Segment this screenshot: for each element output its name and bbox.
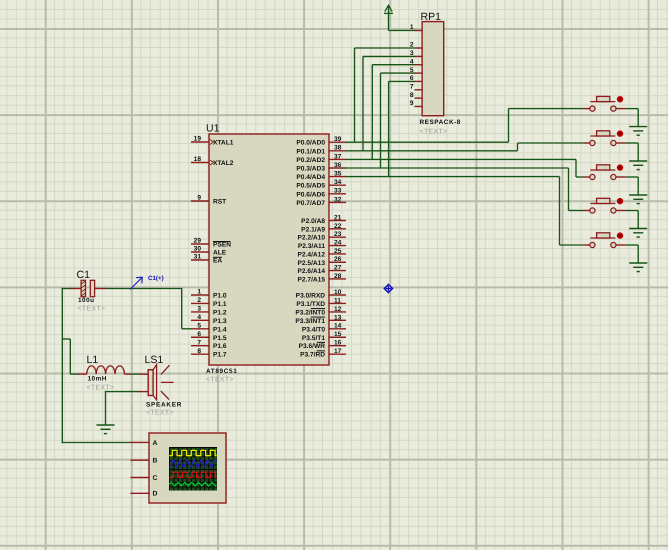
- U1 pin number 16: [334, 340, 342, 347]
- U1 pin 25 P2.4/A12 stub: [328, 253, 346, 255]
- U1 pin number 32: [334, 196, 342, 203]
- label RP1: [421, 11, 442, 23]
- U1 pin name P2.6/A14: [298, 268, 326, 275]
- svg-text:RESPACK-8: RESPACK-8: [420, 119, 461, 126]
- U1 pin 38 P0.1/AD1 stub: [328, 150, 346, 152]
- U1 pin name XTAL2: [213, 160, 234, 167]
- U1 pin name P0.5/AD5: [296, 183, 325, 190]
- RP1 pin number 7: [410, 84, 414, 91]
- wire power arrow to RP1 pin 1: [389, 6, 416, 31]
- RP1 pin number 2: [410, 42, 414, 49]
- wire C1 right to U1 pin 5 (P1.4): [105, 289, 192, 329]
- push button 3: [584, 165, 625, 180]
- push button 2 actuator marker: [617, 130, 623, 136]
- wire RP1 pin 3 to U1 P0.1: [363, 56, 415, 150]
- svg-text:33: 33: [334, 188, 342, 195]
- U1 pin name PSEN: [213, 242, 231, 249]
- svg-text:13: 13: [334, 314, 342, 321]
- svg-text:P3.2/INT0: P3.2/INT0: [295, 309, 325, 316]
- U1 pin 31 EA stub: [191, 259, 210, 261]
- U1 pin name P2.3/A11: [298, 243, 325, 250]
- svg-text:17: 17: [334, 348, 342, 355]
- U1 pin name P3.3/INT1: [295, 317, 325, 325]
- RP1 pin 5 stub: [415, 72, 423, 74]
- U1 pin 33 P0.6/AD6 stub: [328, 193, 346, 195]
- svg-text:A: A: [153, 440, 158, 447]
- U1 pin number 19: [194, 136, 202, 143]
- wire P0.1 to button 2: [346, 143, 585, 151]
- U1 pin 3 P1.2 stub: [191, 311, 210, 313]
- svg-text:P2.2/A10: P2.2/A10: [298, 235, 326, 242]
- U1 pin name EA: [213, 257, 222, 264]
- U1 pin 7 P1.6 stub: [191, 345, 210, 347]
- svg-text:P1.7: P1.7: [213, 352, 227, 359]
- RP1 pin 6 stub: [415, 80, 423, 82]
- oscilloscope input label A: [153, 440, 158, 447]
- wire L1 to LS1 top terminal: [130, 373, 142, 375]
- svg-text:<TEXT>: <TEXT>: [87, 385, 115, 392]
- U1 pin name P0.2/AD2: [296, 157, 325, 164]
- wire RP1 pin 4 to U1 P0.2: [372, 65, 415, 160]
- svg-text:7: 7: [410, 84, 414, 91]
- RP1 pin 1 stub: [415, 30, 423, 32]
- svg-text:18: 18: [194, 156, 202, 163]
- svg-text:P2.7/A15: P2.7/A15: [298, 276, 326, 283]
- label C1 TEXT placeholder: [78, 306, 106, 313]
- U1 pin name P0.3/AD3: [296, 166, 325, 173]
- svg-text:P3.0/RXD: P3.0/RXD: [296, 293, 326, 300]
- svg-text:1: 1: [197, 289, 201, 296]
- svg-text:P1.0: P1.0: [213, 293, 227, 300]
- U1 pin number 31: [194, 254, 202, 261]
- U1 pin name P1.4: [213, 326, 227, 333]
- U1 pin name P1.5: [213, 335, 227, 342]
- U1 pin number 38: [334, 145, 342, 152]
- wire P0.4 to button 5: [346, 177, 585, 245]
- U1 pin name P0.7/AD7: [296, 200, 325, 207]
- wire button 1 to ground: [625, 109, 638, 127]
- svg-text:P2.6/A14: P2.6/A14: [298, 268, 326, 275]
- svg-text:<TEXT>: <TEXT>: [206, 377, 234, 384]
- U1 pin name P1.1: [213, 301, 227, 308]
- U1 pin number 22: [334, 223, 342, 230]
- wire button 5 to ground: [625, 245, 638, 263]
- svg-text:P3.1/TXD: P3.1/TXD: [296, 301, 325, 308]
- svg-text:PSEN: PSEN: [213, 242, 231, 249]
- svg-text:10mH: 10mH: [88, 376, 107, 383]
- svg-text:3: 3: [197, 306, 201, 313]
- svg-text:P3.3/INT1: P3.3/INT1: [295, 318, 325, 325]
- U1 pin 14 P3.4/T0 stub: [328, 328, 346, 330]
- U1 pin number 8: [197, 348, 201, 355]
- push button 5 actuator marker: [617, 232, 623, 238]
- U1 pin number 27: [334, 265, 342, 272]
- U1 pin number 17: [334, 348, 342, 355]
- U1 pin 16 P3.6/WR stub: [328, 345, 346, 347]
- svg-text:XTAL1: XTAL1: [213, 140, 234, 147]
- U1 pin number 23: [334, 231, 342, 238]
- U1 pin name P3.2/INT0: [295, 309, 325, 317]
- svg-text:SPEAKER: SPEAKER: [146, 402, 182, 409]
- svg-text:P1.2: P1.2: [213, 309, 227, 316]
- U1 pin number 25: [334, 248, 342, 255]
- U1 pin number 26: [334, 256, 342, 263]
- svg-text:14: 14: [334, 323, 342, 330]
- wire button 4 to ground: [625, 211, 638, 229]
- oscilloscope input label D: [153, 491, 158, 498]
- U1 pin 34 P0.5/AD5 stub: [328, 184, 346, 186]
- ground below speaker LS1: [97, 425, 115, 434]
- svg-text:1: 1: [410, 24, 414, 31]
- svg-text:P0.2/AD2: P0.2/AD2: [296, 157, 325, 164]
- svg-text:16: 16: [334, 340, 342, 347]
- U1 pin name P0.4/AD4: [296, 174, 325, 181]
- svg-text:19: 19: [194, 136, 202, 143]
- wire RP1 pin 2 to U1 P0.0: [355, 48, 416, 142]
- push button 2: [584, 131, 625, 146]
- label U1 TEXT placeholder: [206, 377, 234, 384]
- svg-text:P0.3/AD3: P0.3/AD3: [296, 166, 325, 173]
- U1 pin 29 PSEN stub: [191, 243, 210, 245]
- U1 pin name XTAL1: [213, 140, 234, 147]
- svg-text:100u: 100u: [78, 297, 95, 304]
- svg-text:P0.7/AD7: P0.7/AD7: [296, 200, 325, 207]
- svg-text:28: 28: [334, 273, 342, 280]
- U1 pin number 21: [334, 214, 342, 221]
- U1 pin name ALE: [213, 250, 227, 257]
- wire P0.2 to button 3: [346, 159, 585, 177]
- U1 pin number 1: [197, 289, 201, 296]
- U1 pin 9 RST stub: [191, 200, 210, 202]
- RP1 pin number 3: [410, 50, 414, 57]
- U1 pin name P1.6: [213, 343, 227, 350]
- U1 pin 35 P0.4/AD4 stub: [328, 176, 346, 178]
- U1 pin number 36: [334, 162, 342, 169]
- svg-text:P0.6/AD6: P0.6/AD6: [296, 191, 325, 198]
- label L1: [87, 354, 99, 366]
- IC U1 AT89C51 body: [209, 134, 329, 365]
- svg-text:ALE: ALE: [213, 250, 227, 257]
- U1 pin name P3.4/T0: [302, 326, 325, 333]
- wire branch junction to L1: [62, 339, 79, 374]
- U1 pin 4 P1.3 stub: [191, 319, 210, 321]
- U1 pin 23 P2.2/A10 stub: [328, 236, 346, 238]
- label RESPACK-8: [420, 119, 461, 126]
- svg-text:EA: EA: [213, 258, 222, 265]
- U1 pin name P2.2/A10: [298, 235, 326, 242]
- U1 pin number 6: [197, 331, 201, 338]
- U1 pin number 12: [334, 306, 342, 313]
- value 100u: [78, 297, 95, 304]
- svg-text:C: C: [153, 475, 158, 482]
- U1 pin 15 P3.5/T1 stub: [328, 336, 346, 338]
- U1 pin number 37: [334, 153, 342, 160]
- U1 pin number 5: [197, 322, 201, 329]
- U1 pin 19 XTAL1 stub: [191, 141, 210, 143]
- svg-text:22: 22: [334, 223, 342, 230]
- label LS1 TEXT placeholder: [146, 410, 174, 417]
- svg-text:<TEXT>: <TEXT>: [78, 306, 106, 313]
- svg-text:21: 21: [334, 214, 342, 221]
- svg-text:D: D: [153, 491, 158, 498]
- svg-text:38: 38: [334, 145, 342, 152]
- RP1 pin number 9: [410, 100, 414, 107]
- oscilloscope input D stub: [130, 492, 149, 494]
- U1 pin number 18: [194, 156, 202, 163]
- oscilloscope trace channel A yellow: [169, 450, 216, 455]
- U1 pin number 4: [197, 314, 201, 321]
- RP1 pin 9 stub: [415, 106, 423, 108]
- RP1 pin number 4: [410, 58, 414, 65]
- wire button 3 to ground: [625, 177, 638, 195]
- oscilloscope input C stub: [130, 477, 149, 479]
- svg-text:27: 27: [334, 265, 342, 272]
- label LS1: [145, 354, 164, 366]
- U1 pin number 2: [197, 297, 201, 304]
- svg-text:39: 39: [334, 136, 342, 143]
- svg-text:<TEXT>: <TEXT>: [420, 129, 448, 136]
- U1 pin 8 P1.7 stub: [191, 353, 210, 355]
- oscilloscope screen: [169, 447, 217, 491]
- svg-text:P1.6: P1.6: [213, 343, 227, 350]
- svg-text:RST: RST: [213, 199, 226, 206]
- RP1 pin 8 stub: [415, 97, 423, 99]
- svg-text:5: 5: [410, 67, 414, 74]
- svg-text:L1: L1: [87, 354, 99, 366]
- svg-text:P2.0/A8: P2.0/A8: [301, 218, 325, 225]
- U1 pin name P3.7/RD: [300, 351, 325, 359]
- oscilloscope input B stub: [130, 459, 149, 461]
- U1 pin 1 P1.0 stub: [191, 294, 210, 296]
- svg-text:LS1: LS1: [145, 354, 164, 366]
- U1 pin name P0.1/AD1: [296, 148, 325, 155]
- U1 pin number 3: [197, 306, 201, 313]
- U1 pin 11 P3.1/TXD stub: [328, 302, 346, 304]
- svg-text:24: 24: [334, 239, 342, 246]
- svg-text:P2.4/A12: P2.4/A12: [298, 251, 326, 258]
- U1 pin name P2.7/A15: [298, 276, 326, 283]
- wire LS1 bottom terminal to ground: [105, 392, 141, 426]
- U1 pin number 34: [334, 179, 342, 186]
- ground button 4: [629, 229, 647, 238]
- RP1 pin number 5: [410, 67, 414, 74]
- svg-text:P2.3/A11: P2.3/A11: [298, 243, 325, 250]
- wire RP1 pin 6 to U1 P0.4: [389, 81, 416, 176]
- svg-text:8: 8: [410, 92, 414, 99]
- svg-text:35: 35: [334, 171, 342, 178]
- svg-text:P0.1/AD1: P0.1/AD1: [296, 148, 325, 155]
- RP1 pin 2 stub: [415, 47, 423, 49]
- label L1 TEXT placeholder: [87, 385, 115, 392]
- power terminal arrow (VCC): [384, 5, 393, 13]
- wire C1 left to vertical bus: [62, 288, 71, 290]
- U1 pin 17 P3.7/RD stub: [328, 353, 346, 355]
- U1 pin name P1.3: [213, 318, 227, 325]
- svg-text:<TEXT>: <TEXT>: [146, 410, 174, 417]
- inductor L1: [78, 366, 130, 374]
- U1 pin 2 P1.1 stub: [191, 302, 210, 304]
- U1 pin number 15: [334, 331, 342, 338]
- svg-text:RP1: RP1: [421, 11, 442, 23]
- ground button 1: [629, 127, 647, 136]
- label C1: [77, 269, 91, 281]
- U1 pin name P3.6/WR: [299, 342, 326, 350]
- wire vertical bus x62 C1 down to oscilloscope row: [61, 288, 63, 443]
- oscilloscope input label B: [153, 458, 158, 465]
- resistor pack RP1 body: [422, 22, 444, 116]
- U1 pin number 39: [334, 136, 342, 143]
- svg-text:C1(+): C1(+): [148, 275, 164, 282]
- svg-text:4: 4: [197, 314, 201, 321]
- oscilloscope trace channel C red: [169, 472, 216, 477]
- U1 pin number 10: [334, 289, 342, 296]
- wire P0.3 to button 4: [346, 168, 585, 211]
- svg-text:B: B: [153, 458, 158, 465]
- U1 pin name P3.0/RXD: [296, 293, 326, 300]
- U1 pin number 35: [334, 171, 342, 178]
- U1 pin 27 P2.6/A14 stub: [328, 270, 346, 272]
- svg-text:26: 26: [334, 256, 342, 263]
- U1 pin 22 P2.1/A9 stub: [328, 228, 346, 230]
- value 10mH: [88, 376, 107, 383]
- svg-text:P3.5/T1: P3.5/T1: [302, 335, 325, 342]
- svg-text:6: 6: [410, 75, 414, 82]
- annotation arrow C1(+): [130, 275, 164, 290]
- oscilloscope body: [149, 433, 226, 503]
- RP1 pin number 1: [410, 24, 414, 31]
- svg-text:C1: C1: [77, 269, 91, 281]
- U1 pin 32 P0.7/AD7 stub: [328, 201, 346, 203]
- push button 5: [584, 233, 625, 248]
- U1 pin 39 P0.0/AD0 stub: [328, 141, 346, 143]
- U1 pin 37 P0.2/AD2 stub: [328, 158, 346, 160]
- U1 pin name P1.7: [213, 352, 227, 359]
- svg-text:36: 36: [334, 162, 342, 169]
- svg-text:23: 23: [334, 231, 342, 238]
- svg-text:31: 31: [194, 254, 202, 261]
- U1 pin number 11: [334, 297, 341, 304]
- svg-text:32: 32: [334, 196, 342, 203]
- svg-text:P1.3: P1.3: [213, 318, 227, 325]
- U1 pin number 28: [334, 273, 342, 280]
- U1 pin name P2.4/A12: [298, 251, 326, 258]
- U1 pin 36 P0.3/AD3 stub: [328, 167, 346, 169]
- RP1 pin 7 stub: [415, 89, 423, 91]
- svg-text:P1.5: P1.5: [213, 335, 227, 342]
- U1 pin 12 P3.2/INT0 stub: [328, 311, 346, 313]
- svg-text:2: 2: [410, 42, 414, 49]
- origin marker (blue diamond): [384, 284, 392, 292]
- RP1 pin 3 stub: [415, 55, 423, 57]
- push button 4: [584, 198, 625, 213]
- U1 pin 26 P2.5/A13 stub: [328, 261, 346, 263]
- svg-text:XTAL2: XTAL2: [213, 160, 234, 167]
- U1 pin 30 ALE stub: [191, 251, 210, 253]
- U1 pin number 9: [197, 195, 201, 202]
- svg-text:P3.4/T0: P3.4/T0: [302, 326, 325, 333]
- speaker LS1: [140, 365, 174, 400]
- U1 pin name RST: [213, 199, 226, 206]
- svg-text:P1.1: P1.1: [213, 301, 227, 308]
- svg-text:P3.6/WR: P3.6/WR: [299, 343, 326, 350]
- oscilloscope trace channel B blue: [169, 460, 216, 467]
- wire button 2 to ground: [625, 143, 638, 161]
- svg-text:9: 9: [197, 195, 201, 202]
- svg-text:P2.5/A13: P2.5/A13: [298, 260, 326, 267]
- svg-text:29: 29: [194, 238, 202, 245]
- U1 pin 13 P3.3/INT1 stub: [328, 319, 346, 321]
- ground button 2: [629, 161, 647, 170]
- U1 pin name P2.1/A9: [301, 226, 325, 233]
- U1 pin number 14: [334, 323, 342, 330]
- svg-text:34: 34: [334, 179, 342, 186]
- push button 4 actuator marker: [617, 198, 623, 204]
- ground button 5: [629, 263, 647, 272]
- U1 pin number 33: [334, 188, 342, 195]
- svg-text:25: 25: [334, 248, 342, 255]
- svg-text:P0.4/AD4: P0.4/AD4: [296, 174, 325, 181]
- label RP1 TEXT placeholder: [420, 129, 448, 136]
- U1 XTAL1 clock mark: [210, 140, 214, 145]
- svg-text:30: 30: [194, 246, 202, 253]
- svg-text:P1.4: P1.4: [213, 326, 227, 333]
- svg-text:P0.5/AD5: P0.5/AD5: [296, 183, 325, 190]
- U1 pin name P3.5/T1: [302, 335, 325, 342]
- U1 pin number 30: [194, 246, 202, 253]
- RP1 pin 4 stub: [415, 64, 423, 66]
- RP1 pin number 8: [410, 92, 414, 99]
- oscilloscope trace channel D green: [169, 482, 216, 486]
- ground button 3: [629, 195, 647, 204]
- label SPEAKER: [146, 402, 182, 409]
- svg-text:9: 9: [410, 100, 414, 107]
- RP1 pin number 6: [410, 75, 414, 82]
- svg-text:P2.1/A9: P2.1/A9: [301, 226, 325, 233]
- svg-text:AT89C51: AT89C51: [206, 368, 237, 375]
- capacitor C1: [71, 280, 106, 296]
- U1 pin 6 P1.5 stub: [191, 336, 210, 338]
- svg-text:3: 3: [410, 50, 414, 57]
- svg-text:5: 5: [197, 322, 201, 329]
- U1 pin number 7: [197, 339, 201, 346]
- svg-text:4: 4: [410, 58, 414, 65]
- svg-text:2: 2: [197, 297, 201, 304]
- svg-text:10: 10: [334, 289, 342, 296]
- wire bottom bus to oscilloscope input A: [62, 442, 131, 444]
- svg-text:U1: U1: [206, 123, 220, 135]
- oscilloscope input A stub: [130, 441, 149, 443]
- U1 pin name P0.0/AD0: [296, 140, 325, 147]
- oscilloscope input label C: [153, 475, 158, 482]
- U1 pin 28 P2.7/A15 stub: [328, 278, 346, 280]
- svg-text:12: 12: [334, 306, 342, 313]
- U1 pin number 13: [334, 314, 342, 321]
- U1 pin name P3.1/TXD: [296, 301, 325, 308]
- svg-text:11: 11: [334, 297, 341, 304]
- U1 XTAL2 clock mark: [210, 160, 214, 165]
- U1 pin name P0.6/AD6: [296, 191, 325, 198]
- svg-text:15: 15: [334, 331, 342, 338]
- U1 pin 24 P2.3/A11 stub: [328, 245, 346, 247]
- svg-text:8: 8: [197, 348, 201, 355]
- svg-text:37: 37: [334, 153, 342, 160]
- wire RP1 pin 5 to U1 P0.3: [381, 73, 416, 168]
- U1 pin name P1.0: [213, 293, 227, 300]
- U1 pin name P2.5/A13: [298, 260, 326, 267]
- label AT89C51: [206, 368, 237, 375]
- svg-text:7: 7: [197, 339, 201, 346]
- label U1: [206, 123, 220, 135]
